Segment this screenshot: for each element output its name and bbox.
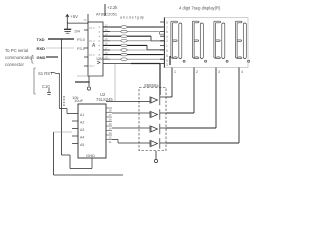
IC U2 labels: [74, 92, 113, 158]
IC U1 port labels: [89, 26, 95, 68]
IC U2: [78, 104, 106, 158]
svg-text:16: 16: [109, 118, 113, 122]
svg-text:3: 3: [166, 63, 168, 67]
svg-text:S8550x4: S8550x4: [144, 83, 161, 88]
svg-text:P1.3: P1.3: [89, 39, 95, 43]
wire base Q3: [112, 127, 150, 129]
svg-text:12: 12: [109, 136, 113, 140]
svg-text:1: 1: [174, 70, 176, 74]
svg-text:9: 9: [166, 21, 168, 25]
common pin labels: [174, 70, 243, 74]
svg-text:4 digit 7seg display(R): 4 digit 7seg display(R): [179, 6, 221, 11]
resistor bodies: [121, 26, 127, 61]
wire down from dp row: [114, 64, 116, 102]
transistor Q1: [150, 95, 166, 105]
wire common3 to Q3: [166, 127, 216, 129]
wire seg a: [103, 26, 163, 28]
wire seg b: [103, 31, 160, 33]
svg-text:+2.2k: +2.2k: [107, 5, 118, 10]
wire RXD: [46, 47, 74, 49]
IC U1: [88, 22, 103, 76]
svg-text:2: 2: [196, 70, 198, 74]
node +5V: [70, 14, 78, 19]
svg-text:GND: GND: [37, 55, 46, 60]
resistor R9: [63, 96, 65, 107]
svg-text:AT89C2051: AT89C2051: [96, 12, 118, 17]
svg-text:A5: A5: [80, 143, 84, 147]
svg-text:14: 14: [109, 127, 113, 131]
transistor Q4: [150, 138, 166, 148]
transistor Q3: [150, 124, 166, 134]
wire +5V vertical: [104, 4, 106, 16]
svg-text:RXD: RXD: [37, 46, 46, 51]
switch S1 RST: [38, 71, 53, 76]
svg-text:17: 17: [109, 113, 113, 117]
wire base Q1: [106, 101, 150, 103]
capacitor C1: [64, 28, 71, 30]
svg-text:A2: A2: [80, 121, 84, 125]
wire gnd loop: [54, 132, 124, 175]
wire seg g: [103, 54, 163, 56]
svg-text:18: 18: [109, 109, 113, 113]
node TXD: [37, 37, 45, 42]
svg-text:P1.5: P1.5: [89, 53, 95, 57]
svg-text:connector: connector: [5, 62, 24, 67]
svg-text:P3.0: P3.0: [77, 38, 85, 42]
capacitor C2: [42, 84, 50, 89]
svg-text:TXD: TXD: [37, 37, 45, 42]
wire base Q4: [112, 140, 150, 144]
7-segment digit D4: [235, 21, 249, 62]
svg-text:P3.7: P3.7: [89, 64, 95, 68]
clock pin: [97, 61, 100, 64]
svg-text:15: 15: [109, 122, 113, 126]
wire GND: [46, 56, 58, 58]
svg-text:104: 104: [74, 30, 80, 34]
transistor array box: [139, 88, 166, 151]
wire gnd stub below transistor box: [155, 151, 157, 159]
svg-text:To PC serial: To PC serial: [5, 48, 28, 53]
title labels: [96, 5, 221, 20]
svg-text:10uF: 10uF: [74, 98, 84, 103]
svg-text:P3.1: P3.1: [77, 47, 85, 51]
svg-text:+5V: +5V: [70, 14, 78, 19]
IC U1 right pin stubs: [103, 27, 110, 59]
IC U1 pin numbers: [99, 23, 109, 61]
display module outline: [164, 18, 248, 68]
7-segment digit D3: [214, 21, 228, 62]
IC U1 left pins: [84, 30, 88, 66]
wire TXD: [48, 38, 74, 40]
svg-text:13: 13: [109, 131, 113, 135]
svg-text:9: 9: [166, 49, 168, 53]
left annotation text: [5, 48, 35, 67]
display left bus: [164, 18, 166, 68]
wire common4 to Q4: [166, 142, 239, 144]
node GND: [37, 55, 46, 60]
7-segment digit D2: [192, 21, 206, 62]
svg-text:A1: A1: [80, 113, 84, 117]
svg-text:1: 1: [166, 44, 168, 48]
wire base Q2: [112, 112, 150, 114]
wire vcc: [67, 14, 88, 23]
wire digit1 dark edge: [169, 56, 171, 65]
transistor Q2: [150, 109, 166, 119]
wire seg f: [103, 49, 163, 51]
wire seg d: [103, 40, 163, 42]
wire seg c: [103, 35, 151, 37]
svg-text:a b c d e f g dp: a b c d e f g dp: [120, 16, 144, 20]
svg-text:P1.0: P1.0: [89, 26, 95, 30]
crystal Y1: [77, 75, 103, 77]
svg-text:{: {: [31, 54, 34, 64]
wire vcc rail to transistors: [103, 63, 131, 65]
svg-text:A4: A4: [80, 136, 84, 140]
7-segment digit D1: [171, 21, 185, 62]
wire common2 to Q2: [166, 112, 194, 114]
svg-text:4: 4: [241, 70, 243, 74]
svg-text:6: 6: [166, 30, 168, 34]
bracket: [33, 68, 35, 94]
svg-text:2: 2: [166, 39, 168, 43]
node RXD: [37, 46, 46, 51]
display pin stubs: [160, 22, 164, 64]
svg-text:GND: GND: [86, 153, 95, 158]
svg-text:A3: A3: [80, 128, 84, 132]
pin 20 label: [84, 18, 87, 22]
display common pins: [172, 68, 239, 144]
IC U2 right pins: [106, 108, 112, 140]
wire common1 to Q1: [166, 96, 172, 98]
IC U2 pin numbers: [109, 109, 113, 145]
wire seg dp: [103, 58, 163, 60]
svg-text:S1 RST: S1 RST: [38, 71, 53, 76]
IC U2 left pins: [72, 121, 78, 144]
svg-text:3: 3: [218, 70, 220, 74]
wire TXD down: [62, 39, 93, 169]
display pin numbers: [166, 21, 168, 67]
svg-text:8: 8: [166, 54, 168, 58]
svg-text:11: 11: [109, 140, 112, 144]
wire seg e: [103, 44, 147, 46]
power arrow: [66, 15, 69, 30]
wire U2 gnd: [91, 158, 93, 169]
